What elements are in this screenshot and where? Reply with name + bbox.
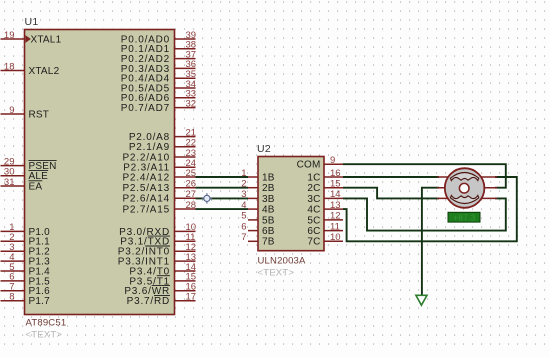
motor pin stub mid-right <box>473 187 497 189</box>
U1 pin 36 (P0.3/AD3) <box>175 67 196 69</box>
svg-text:9: 9 <box>9 105 14 116</box>
svg-text:U2: U2 <box>257 143 271 155</box>
svg-text:AT89C51: AT89C51 <box>26 318 67 329</box>
motor pin stub bottom-left <box>437 197 456 199</box>
svg-text:+87.3: +87.3 <box>453 213 475 222</box>
svg-text:RST: RST <box>29 109 50 120</box>
U1 pin 32 (P0.7/AD7) <box>175 107 196 109</box>
U1 pin 23 (P2.2/A10) <box>175 156 196 158</box>
svg-text:<TEXT>: <TEXT> <box>258 268 295 279</box>
U1 pin 4 (P1.3) <box>1 260 25 262</box>
motor winding top <box>450 173 478 181</box>
U1 pin 25 (P2.4/A12) <box>175 176 196 178</box>
svg-text:31: 31 <box>4 177 15 188</box>
wire motor centre-tap left to ground <box>422 188 439 295</box>
svg-text:<TEXT>: <TEXT> <box>26 330 63 341</box>
U1 pin 7 (P1.6) <box>1 290 25 292</box>
U1 pin 38 (P0.1/AD1) <box>175 48 196 50</box>
svg-text:13: 13 <box>330 200 341 211</box>
U2 pin 13 (4C) <box>324 208 343 210</box>
svg-text:P0.7/AD7: P0.7/AD7 <box>121 103 170 114</box>
U2 pin 2 (2B) <box>248 187 258 189</box>
svg-text:P2.5/A13: P2.5/A13 <box>122 183 170 194</box>
U2 pin 12 (5C) <box>324 219 343 221</box>
svg-text:9: 9 <box>330 155 335 166</box>
wire P2.7 to 4B <box>196 208 249 210</box>
U1 pin 6 (P1.5) <box>1 280 25 282</box>
svg-text:P2.7/A15: P2.7/A15 <box>122 204 170 215</box>
U2 pin 5 (5B) <box>248 219 258 221</box>
svg-text:7B: 7B <box>262 237 275 248</box>
U2 pin 10 (7C) <box>324 240 343 242</box>
svg-text:P3.7/: P3.7/ <box>127 296 154 307</box>
svg-text:P1.7: P1.7 <box>29 296 51 307</box>
svg-text:5B: 5B <box>262 215 275 226</box>
wire 1C to motor coil top-left <box>343 176 439 178</box>
U1 pin 15 (P3.5/T1) <box>175 280 196 282</box>
U2 pin 16 (1C) <box>324 176 343 178</box>
U1 pin 29 (PSEN) <box>1 165 25 167</box>
U1 pin 24 (P2.3/A11) <box>175 166 196 168</box>
svg-text:25: 25 <box>186 168 197 179</box>
svg-text:4C: 4C <box>307 205 320 216</box>
svg-text:2B: 2B <box>262 183 275 194</box>
U1 pin 18 (XTAL2) <box>1 70 25 72</box>
svg-text:12: 12 <box>330 211 341 222</box>
svg-text:3C: 3C <box>307 194 320 205</box>
svg-text:U1: U1 <box>25 16 39 28</box>
motor angle display <box>448 212 480 222</box>
U1 AT89C51 body <box>25 30 175 315</box>
svg-text:10: 10 <box>330 232 341 243</box>
U1 pin 5 (P1.4) <box>1 270 25 272</box>
U1 pin 17 (P3.7/RD) <box>175 300 196 302</box>
svg-text:EA: EA <box>29 181 43 192</box>
svg-text:5: 5 <box>241 211 246 222</box>
U1 pin 16 (P3.6/WR) <box>175 290 196 292</box>
wire P2.5 to 2B <box>196 187 249 189</box>
U1 pin 31 (EA) <box>1 185 25 187</box>
U1 pin 37 (P0.2/AD2) <box>175 58 196 60</box>
motor pin stub top-left <box>437 176 456 178</box>
U2 pin 6 (6B) <box>248 230 258 232</box>
motor pin stub mid-left <box>437 187 456 189</box>
svg-text:COM: COM <box>297 160 321 171</box>
U1 pin 10 (P3.0/RXD) <box>175 230 196 232</box>
svg-text:16: 16 <box>330 168 341 179</box>
U1 pin 39 (P0.0/AD0) <box>175 38 196 40</box>
U2 pin 15 (2C) <box>324 187 343 189</box>
svg-text:4B: 4B <box>262 205 275 216</box>
U2 pin 14 (3C) <box>324 197 343 199</box>
U2 ULN2003A body <box>258 157 324 251</box>
U1 pin 28 (P2.7/A15) <box>175 208 196 210</box>
U1 pin 13 (P3.3/INT1) <box>175 260 196 262</box>
svg-text:6C: 6C <box>307 226 320 237</box>
U2 pin 4 (4B) <box>248 208 258 210</box>
svg-text:1C: 1C <box>307 172 320 183</box>
svg-text:28: 28 <box>186 200 197 211</box>
svg-text:XTAL1: XTAL1 <box>31 34 62 45</box>
motor pin stub top-right <box>473 176 497 178</box>
svg-text:2C: 2C <box>307 183 320 194</box>
svg-text:1B: 1B <box>262 172 275 183</box>
svg-text:32: 32 <box>186 98 197 109</box>
svg-text:6: 6 <box>241 221 246 232</box>
wire 4C to motor coil top-right <box>343 177 517 241</box>
motor pin stub bottom-right <box>473 197 497 199</box>
U2 pin 1 (1B) <box>248 176 258 178</box>
wire P2.4 to 1B <box>196 176 249 178</box>
wire 3C to motor coil bottom-right <box>343 198 506 230</box>
U1 pin 3 (P1.2) <box>1 250 25 252</box>
wire P2.6 to 3B <box>196 197 249 199</box>
stepper motor body <box>445 168 485 208</box>
U1 pin 14 (P3.4/T0) <box>175 270 196 272</box>
svg-text:19: 19 <box>4 30 15 41</box>
U1 pin 11 (P3.1/TXD) <box>175 240 196 242</box>
node marker on P2.6 wire <box>202 193 212 203</box>
U1 pin 30 (ALE) <box>1 175 25 177</box>
U1 pin 26 (P2.5/A13) <box>175 187 196 189</box>
svg-text:3B: 3B <box>262 194 275 205</box>
svg-text:P2.4/A12: P2.4/A12 <box>122 172 170 183</box>
U1 pin 2 (P1.1) <box>1 240 25 242</box>
svg-text:6B: 6B <box>262 226 275 237</box>
svg-text:7C: 7C <box>307 237 320 248</box>
U1 pin 22 (P2.1/A9) <box>175 146 196 148</box>
svg-text:P2.6/A14: P2.6/A14 <box>122 194 170 205</box>
U1 XTAL1 clock chevron <box>26 35 31 42</box>
svg-text:XTAL2: XTAL2 <box>29 66 60 77</box>
svg-text:8: 8 <box>9 292 14 303</box>
svg-text:ULN2003A: ULN2003A <box>258 256 307 267</box>
svg-text:11: 11 <box>330 221 340 232</box>
wire COM to motor centre-tap right <box>343 164 506 188</box>
U2 pin 9 (COM) <box>324 163 343 165</box>
svg-text:17: 17 <box>186 292 197 303</box>
U1 pin 1 (P1.0) <box>1 230 25 232</box>
svg-text:26: 26 <box>186 179 197 190</box>
U1 pin 9 (RST) <box>1 113 25 115</box>
U2 pin 7 (7B) <box>248 240 258 242</box>
svg-text:RD: RD <box>154 296 170 307</box>
U2 pin 3 (3B) <box>248 197 258 199</box>
wire 2C to motor coil bottom-left <box>343 188 439 199</box>
svg-text:27: 27 <box>186 189 197 200</box>
svg-text:18: 18 <box>4 61 15 72</box>
U1 pin 33 (P0.6/AD6) <box>175 97 196 99</box>
svg-text:7: 7 <box>241 232 246 243</box>
motor shaft hole <box>459 183 469 193</box>
ground <box>416 295 427 305</box>
U1 pin 8 (P1.7) <box>1 300 25 302</box>
U1 pin 34 (P0.5/AD5) <box>175 87 196 89</box>
U2 pin 11 (6C) <box>324 230 343 232</box>
U1 pin 12 (P3.2/INT0) <box>175 250 196 252</box>
U1 pin 27 (P2.6/A14) <box>175 197 196 199</box>
svg-text:14: 14 <box>330 189 341 200</box>
U1 pin 35 (P0.4/AD4) <box>175 77 196 79</box>
svg-text:15: 15 <box>330 179 341 190</box>
U1 pin 21 (P2.0/A8) <box>175 136 196 138</box>
svg-text:5C: 5C <box>307 215 320 226</box>
motor winding bottom <box>450 195 478 203</box>
U1 pin 19 (XTAL1) <box>1 38 25 40</box>
